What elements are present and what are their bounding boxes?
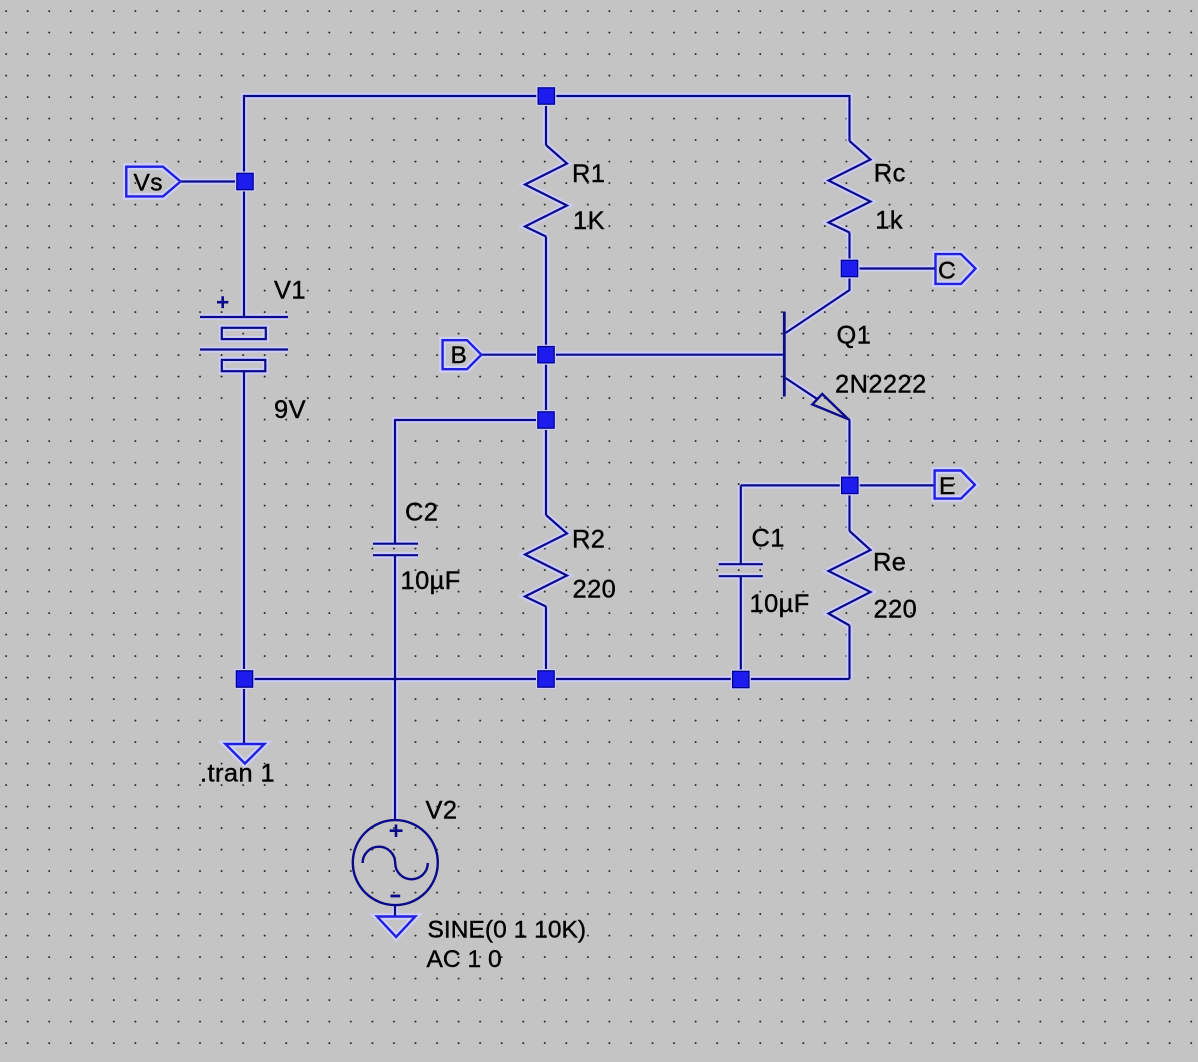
svg-text:SINE(0 1 10K): SINE(0 1 10K): [428, 917, 587, 944]
svg-text:9V: 9V: [274, 396, 306, 424]
svg-text:10µF: 10µF: [401, 567, 461, 595]
svg-text:R1: R1: [572, 160, 605, 188]
svg-text:AC 1 0: AC 1 0: [427, 946, 502, 973]
svg-text:Rc: Rc: [874, 159, 906, 187]
svg-text:R2: R2: [572, 526, 605, 554]
svg-text:C1: C1: [752, 524, 785, 552]
svg-text:V2: V2: [426, 796, 458, 824]
svg-text:220: 220: [874, 595, 918, 623]
svg-text:220: 220: [573, 576, 617, 604]
svg-text:E: E: [939, 473, 956, 500]
svg-text:1K: 1K: [573, 207, 605, 235]
svg-text:B: B: [451, 342, 468, 369]
svg-text:C: C: [938, 257, 956, 284]
svg-text:V1: V1: [274, 277, 306, 305]
svg-text:C2: C2: [405, 499, 438, 527]
svg-text:10µF: 10µF: [750, 590, 810, 618]
svg-text:1k: 1k: [875, 207, 903, 235]
svg-text:Re: Re: [873, 549, 906, 577]
svg-text:Q1: Q1: [837, 321, 872, 349]
svg-text:2N2222: 2N2222: [835, 370, 927, 398]
svg-text:Vs: Vs: [134, 170, 164, 197]
svg-text:.tran 1: .tran 1: [200, 760, 275, 788]
